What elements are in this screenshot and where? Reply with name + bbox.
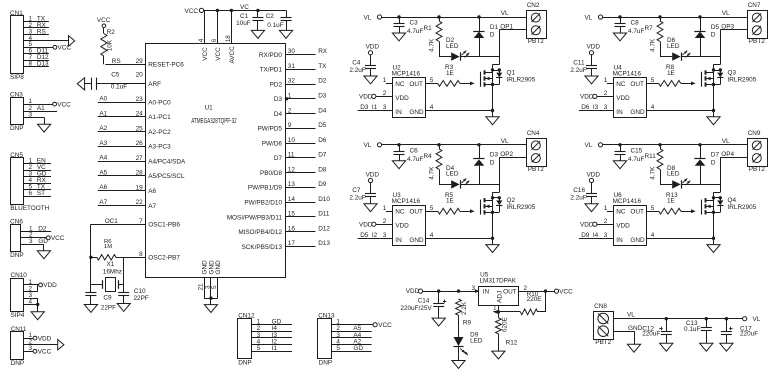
svg-text:1E: 1E: [446, 198, 454, 205]
svg-text:VCC: VCC: [559, 288, 573, 295]
svg-text:2: 2: [383, 218, 387, 225]
svg-text:LED: LED: [470, 337, 483, 344]
svg-text:IN: IN: [395, 109, 402, 116]
svg-text:LM317DPAK: LM317DPAK: [480, 278, 517, 285]
svg-text:GD: GD: [353, 345, 363, 352]
svg-text:1E: 1E: [446, 70, 454, 77]
svg-text:VL: VL: [585, 142, 593, 149]
svg-text:CN8: CN8: [594, 303, 607, 310]
svg-text:I4: I4: [593, 232, 599, 239]
svg-text:14: 14: [288, 196, 296, 203]
svg-text:VL: VL: [722, 10, 730, 17]
svg-text:19: 19: [136, 184, 144, 191]
svg-text:D8: D8: [318, 166, 327, 173]
svg-text:C11: C11: [573, 59, 585, 66]
svg-text:A3: A3: [99, 140, 107, 147]
svg-text:PW/PD5: PW/PD5: [257, 126, 282, 133]
svg-text:C3: C3: [410, 20, 419, 27]
svg-text:R7: R7: [645, 25, 654, 32]
svg-text:D3: D3: [360, 104, 369, 111]
svg-text:4.7uF: 4.7uF: [407, 28, 423, 35]
svg-text:VDD: VDD: [580, 94, 594, 101]
svg-text:A1: A1: [99, 110, 107, 117]
svg-text:2.2K: 2.2K: [461, 301, 468, 315]
svg-text:16: 16: [288, 225, 296, 232]
svg-text:PW/D6: PW/D6: [262, 140, 283, 147]
svg-text:VCC: VCC: [57, 101, 71, 108]
svg-text:17: 17: [288, 240, 296, 247]
svg-text:0.1uF: 0.1uF: [267, 22, 283, 29]
svg-text:2: 2: [604, 218, 608, 225]
svg-text:D: D: [711, 32, 716, 39]
svg-text:VL: VL: [364, 142, 372, 149]
svg-text:C16: C16: [573, 187, 585, 194]
svg-text:IRLR2905: IRLR2905: [728, 204, 757, 211]
svg-text:29: 29: [136, 58, 144, 65]
svg-text:VDD: VDD: [406, 288, 420, 295]
svg-text:D7: D7: [711, 152, 720, 159]
svg-text:4.7uF: 4.7uF: [628, 28, 644, 35]
svg-text:VDD: VDD: [616, 95, 630, 102]
svg-text:IN: IN: [395, 237, 402, 244]
svg-text:RS: RS: [112, 58, 121, 65]
svg-text:U1: U1: [205, 104, 214, 111]
svg-text:DNP: DNP: [10, 125, 24, 132]
svg-text:A1: A1: [37, 105, 45, 112]
svg-text:RS: RS: [37, 28, 46, 35]
svg-text:4.7K: 4.7K: [650, 38, 657, 52]
svg-text:VDD: VDD: [359, 94, 373, 101]
svg-text:20: 20: [136, 72, 144, 79]
svg-text:LED: LED: [446, 171, 459, 178]
svg-text:Q1: Q1: [507, 69, 516, 76]
svg-text:R9: R9: [463, 319, 472, 326]
svg-text:1E: 1E: [667, 198, 675, 205]
svg-text:SCK/PB5/D13: SCK/PB5/D13: [242, 244, 283, 251]
svg-text:6: 6: [211, 38, 218, 42]
svg-text:D3: D3: [490, 152, 499, 159]
svg-text:CN4: CN4: [527, 130, 540, 137]
svg-text:D9: D9: [318, 181, 327, 188]
svg-text:D3: D3: [318, 93, 327, 100]
svg-text:D: D: [711, 159, 716, 166]
svg-text:31: 31: [288, 63, 296, 70]
svg-text:D7: D7: [318, 152, 327, 159]
svg-text:2.2uF: 2.2uF: [349, 67, 365, 74]
svg-text:X1: X1: [107, 261, 115, 268]
svg-text:23: 23: [136, 96, 144, 103]
svg-text:5: 5: [651, 77, 655, 84]
svg-text:VDD: VDD: [587, 44, 601, 51]
svg-text:C15: C15: [631, 147, 643, 154]
svg-text:4: 4: [430, 104, 434, 111]
svg-text:D5: D5: [318, 122, 327, 129]
svg-text:GND: GND: [215, 260, 222, 275]
svg-text:A0-PC0: A0-PC0: [148, 99, 171, 106]
svg-text:32: 32: [288, 78, 296, 85]
svg-text:3: 3: [29, 345, 33, 352]
svg-text:VCC: VCC: [215, 47, 222, 61]
svg-text:D13: D13: [37, 61, 49, 68]
svg-text:C10: C10: [134, 288, 146, 295]
svg-text:ST: ST: [37, 190, 45, 197]
svg-text:VCC: VCC: [51, 235, 65, 242]
svg-text:8: 8: [139, 251, 143, 258]
svg-text:OSC2-PB7: OSC2-PB7: [148, 255, 180, 262]
svg-text:D2: D2: [318, 78, 327, 85]
svg-text:PBT2: PBT2: [528, 38, 544, 45]
svg-text:A4/PC4/SDA: A4/PC4/SDA: [148, 159, 186, 166]
svg-text:VDD: VDD: [43, 282, 57, 289]
svg-text:3: 3: [383, 104, 387, 111]
svg-text:2: 2: [604, 90, 608, 97]
svg-text:VDD: VDD: [366, 44, 380, 51]
svg-text:GND: GND: [409, 109, 424, 116]
svg-text:R4: R4: [424, 153, 433, 160]
svg-text:NC: NC: [616, 209, 626, 216]
svg-text:22: 22: [136, 199, 144, 206]
svg-text:PD2: PD2: [270, 81, 283, 88]
svg-text:PBT2: PBT2: [749, 166, 765, 173]
svg-text:2: 2: [288, 107, 292, 114]
svg-text:MCP1416: MCP1416: [613, 198, 642, 205]
svg-text:OUT: OUT: [409, 209, 423, 216]
svg-text:C8: C8: [631, 20, 640, 27]
svg-text:Q3: Q3: [728, 69, 737, 76]
svg-text:TX/PD1: TX/PD1: [260, 67, 283, 74]
svg-text:I1: I1: [272, 345, 278, 352]
svg-text:VDD: VDD: [38, 335, 52, 342]
svg-text:LED: LED: [446, 43, 459, 50]
svg-text:OUT: OUT: [409, 81, 423, 88]
svg-text:DNP: DNP: [11, 360, 25, 367]
svg-text:3: 3: [604, 232, 608, 239]
svg-text:C14: C14: [418, 297, 430, 304]
svg-text:D9: D9: [581, 232, 590, 239]
svg-text:C4: C4: [352, 59, 361, 66]
svg-text:1: 1: [383, 205, 387, 212]
svg-text:5: 5: [257, 345, 261, 352]
svg-text:2.2uF: 2.2uF: [349, 195, 365, 202]
svg-text:3: 3: [383, 232, 387, 239]
svg-text:Q4: Q4: [728, 197, 737, 204]
svg-text:A7: A7: [99, 199, 107, 206]
svg-text:ATMEGA328TQPF-32: ATMEGA328TQPF-32: [191, 118, 237, 125]
svg-text:CN7: CN7: [748, 2, 761, 9]
svg-text:OUT: OUT: [630, 209, 644, 216]
svg-text:CN9: CN9: [748, 130, 761, 137]
svg-text:1E: 1E: [667, 70, 675, 77]
svg-text:30: 30: [288, 48, 296, 55]
svg-text:1: 1: [604, 77, 608, 84]
svg-text:VDD: VDD: [580, 222, 594, 229]
svg-text:D6: D6: [318, 137, 327, 144]
svg-text:IN: IN: [616, 237, 623, 244]
svg-text:DNP: DNP: [238, 359, 252, 366]
svg-text:VL: VL: [501, 10, 509, 17]
svg-text:5: 5: [211, 285, 218, 289]
svg-text:D7: D7: [274, 155, 283, 162]
svg-text:5: 5: [430, 205, 434, 212]
svg-text:4.7uF: 4.7uF: [407, 156, 423, 163]
svg-text:VDD: VDD: [359, 222, 373, 229]
svg-text:220E: 220E: [527, 296, 542, 303]
svg-text:A1-PC1: A1-PC1: [148, 114, 171, 121]
svg-text:A3-PC3: A3-PC3: [148, 144, 171, 151]
svg-text:220uF: 220uF: [740, 330, 758, 337]
svg-text:8: 8: [29, 61, 33, 68]
svg-text:GND: GND: [630, 237, 645, 244]
svg-text:12: 12: [288, 166, 296, 173]
svg-text:3: 3: [604, 104, 608, 111]
svg-text:16Mhz: 16Mhz: [103, 269, 122, 276]
svg-text:R1: R1: [424, 25, 433, 32]
svg-text:D2: D2: [38, 225, 47, 232]
svg-text:OC1: OC1: [105, 218, 119, 225]
svg-text:VC: VC: [240, 4, 249, 11]
svg-text:NC: NC: [616, 81, 626, 88]
svg-text:RESET-PC6: RESET-PC6: [148, 62, 184, 69]
svg-text:5: 5: [651, 205, 655, 212]
svg-text:OUT: OUT: [503, 289, 517, 296]
svg-text:0.1uF: 0.1uF: [111, 83, 127, 90]
svg-text:VL: VL: [501, 138, 509, 145]
svg-text:R12: R12: [506, 340, 518, 347]
svg-text:R11: R11: [645, 153, 657, 160]
svg-text:RX/PD0: RX/PD0: [259, 52, 283, 59]
svg-text:RX: RX: [318, 48, 328, 55]
svg-text:ADJ: ADJ: [497, 291, 504, 303]
svg-text:4: 4: [198, 38, 205, 42]
svg-text:I3: I3: [593, 104, 599, 111]
svg-text:28: 28: [136, 170, 144, 177]
svg-text:6: 6: [29, 190, 33, 197]
svg-text:4.7K: 4.7K: [429, 166, 436, 180]
svg-text:D4: D4: [274, 111, 283, 118]
svg-text:D4: D4: [318, 107, 327, 114]
svg-text:A5: A5: [99, 169, 107, 176]
svg-text:4: 4: [430, 232, 434, 239]
svg-text:11: 11: [288, 152, 295, 159]
svg-text:NC: NC: [395, 209, 405, 216]
svg-text:D1: D1: [490, 24, 499, 31]
svg-text:OSC1-PB6: OSC1-PB6: [148, 222, 180, 229]
svg-text:PBT2: PBT2: [749, 38, 765, 45]
svg-text:CN2: CN2: [527, 2, 540, 9]
svg-text:15: 15: [288, 211, 296, 218]
svg-text:10K: 10K: [107, 39, 114, 51]
svg-text:PW/PB1/D9: PW/PB1/D9: [248, 185, 283, 192]
svg-text:VDD: VDD: [366, 171, 380, 178]
svg-text:A7: A7: [148, 203, 156, 210]
svg-text:Q2: Q2: [507, 197, 516, 204]
svg-text:ARF: ARF: [148, 81, 161, 88]
svg-text:26: 26: [136, 140, 144, 147]
svg-text:VDD: VDD: [395, 95, 409, 102]
svg-text:A6: A6: [148, 188, 156, 195]
svg-text:22PF: 22PF: [134, 295, 149, 302]
svg-text:1: 1: [383, 77, 387, 84]
svg-text:MCP1416: MCP1416: [392, 70, 421, 77]
svg-text:4: 4: [651, 232, 655, 239]
svg-text:VCC: VCC: [185, 8, 199, 15]
svg-text:PW/PB2/D10: PW/PB2/D10: [244, 200, 282, 207]
svg-text:1M: 1M: [104, 244, 112, 250]
svg-text:2.2uF: 2.2uF: [570, 67, 586, 74]
svg-text:4.7K: 4.7K: [429, 38, 436, 52]
svg-text:IN: IN: [483, 289, 490, 296]
svg-text:IRLR2905: IRLR2905: [507, 76, 536, 83]
svg-text:LED: LED: [667, 43, 680, 50]
svg-text:9: 9: [288, 122, 292, 129]
svg-text:PBT2: PBT2: [595, 339, 611, 346]
svg-text:D13: D13: [318, 240, 330, 247]
svg-text:4: 4: [29, 298, 33, 305]
svg-text:DNP: DNP: [319, 359, 333, 366]
svg-text:VDD: VDD: [616, 223, 630, 230]
svg-text:I2: I2: [372, 232, 378, 239]
svg-text:VCC: VCC: [378, 322, 392, 329]
svg-text:OUT: OUT: [630, 81, 644, 88]
svg-text:0.1uF: 0.1uF: [684, 326, 700, 333]
svg-text:A5/PC5/SCL: A5/PC5/SCL: [148, 173, 185, 180]
svg-text:13: 13: [288, 181, 296, 188]
svg-text:BLUETOOTH: BLUETOOTH: [10, 205, 49, 212]
svg-text:IN: IN: [616, 109, 623, 116]
svg-text:PBT2: PBT2: [528, 166, 544, 173]
svg-text:2: 2: [383, 90, 387, 97]
svg-text:MISO/PB4/D12: MISO/PB4/D12: [238, 229, 282, 236]
svg-text:R2: R2: [107, 29, 116, 36]
svg-text:D: D: [490, 32, 495, 39]
svg-text:10: 10: [288, 137, 296, 144]
svg-text:C2: C2: [266, 13, 275, 20]
svg-text:D11: D11: [318, 211, 330, 218]
svg-text:4.7uF: 4.7uF: [628, 156, 644, 163]
svg-text:VCC: VCC: [38, 349, 52, 356]
svg-text:1: 1: [604, 205, 608, 212]
svg-text:I1: I1: [372, 104, 378, 111]
svg-text:D5: D5: [711, 24, 720, 31]
svg-text:D6: D6: [581, 104, 590, 111]
svg-text:4.7K: 4.7K: [650, 166, 657, 180]
svg-text:VL: VL: [753, 316, 761, 323]
svg-text:27: 27: [136, 155, 144, 162]
svg-text:24: 24: [136, 111, 144, 118]
svg-text:MCP1416: MCP1416: [392, 198, 421, 205]
svg-text:MOSI/PW/PB3/D11: MOSI/PW/PB3/D11: [227, 214, 283, 221]
svg-text:GND: GND: [630, 109, 645, 116]
svg-text:A6: A6: [99, 184, 107, 191]
svg-text:NC: NC: [395, 81, 405, 88]
svg-text:C1: C1: [240, 13, 249, 20]
svg-text:A2-PC2: A2-PC2: [148, 129, 171, 136]
svg-text:VCC: VCC: [202, 47, 209, 61]
svg-text:VCC: VCC: [97, 17, 111, 24]
svg-text:2.2uF: 2.2uF: [570, 195, 586, 202]
svg-text:D12: D12: [318, 225, 330, 232]
svg-text:25: 25: [136, 125, 144, 132]
svg-text:VDD: VDD: [587, 171, 601, 178]
svg-text:220uF: 220uF: [642, 330, 660, 337]
svg-text:5: 5: [430, 77, 434, 84]
svg-text:C9: C9: [103, 295, 112, 302]
svg-text:5: 5: [336, 345, 340, 352]
svg-text:1: 1: [288, 93, 292, 100]
svg-text:10uF: 10uF: [236, 20, 251, 27]
svg-text:D3: D3: [274, 96, 283, 103]
svg-text:AVCC: AVCC: [229, 46, 236, 64]
svg-text:GND: GND: [409, 237, 424, 244]
svg-text:A0: A0: [99, 96, 107, 103]
svg-text:C7: C7: [352, 187, 361, 194]
svg-text:D: D: [490, 159, 495, 166]
svg-text:C6: C6: [410, 147, 419, 154]
svg-text:VL: VL: [585, 14, 593, 21]
svg-text:VL: VL: [627, 312, 635, 319]
svg-text:DNP: DNP: [10, 252, 24, 259]
svg-text:MCP1416: MCP1416: [613, 70, 642, 77]
svg-text:VL: VL: [722, 138, 730, 145]
svg-text:LED: LED: [667, 171, 680, 178]
svg-text:VDD: VDD: [395, 223, 409, 230]
svg-text:VL: VL: [364, 14, 372, 21]
svg-text:VCC: VCC: [58, 45, 72, 52]
svg-text:PB0/D8: PB0/D8: [260, 170, 282, 177]
svg-text:4: 4: [651, 104, 655, 111]
svg-text:3: 3: [29, 238, 33, 245]
svg-text:SIP8: SIP8: [10, 74, 24, 81]
svg-text:SIP4: SIP4: [11, 312, 25, 319]
svg-text:220uF/25V: 220uF/25V: [400, 305, 432, 312]
svg-text:D5: D5: [360, 232, 369, 239]
svg-text:GND: GND: [628, 325, 643, 332]
svg-text:TX: TX: [318, 63, 327, 70]
svg-text:IRLR2905: IRLR2905: [507, 204, 536, 211]
svg-text:C5: C5: [111, 72, 120, 79]
svg-text:D10: D10: [318, 196, 330, 203]
svg-text:3: 3: [29, 111, 33, 118]
svg-text:22PF: 22PF: [101, 305, 116, 312]
svg-text:A4: A4: [99, 155, 107, 162]
svg-text:IRLR2905: IRLR2905: [728, 76, 757, 83]
svg-text:18: 18: [225, 35, 232, 43]
svg-text:7: 7: [139, 218, 143, 225]
svg-text:A2: A2: [99, 125, 107, 132]
svg-text:620E: 620E: [501, 317, 508, 332]
